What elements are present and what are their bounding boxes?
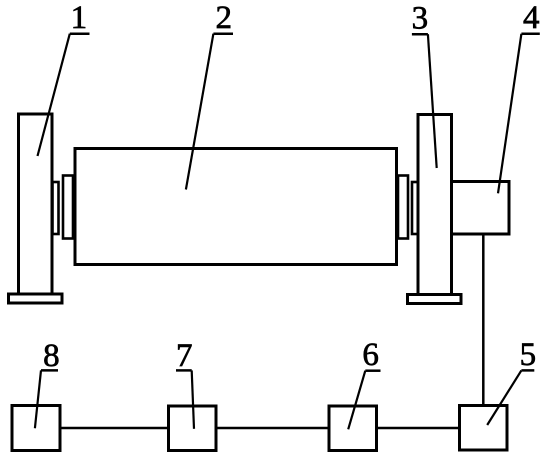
- svg-text:6: 6: [362, 337, 379, 373]
- svg-text:1: 1: [71, 0, 88, 36]
- svg-text:7: 7: [176, 338, 193, 374]
- svg-text:3: 3: [412, 0, 429, 36]
- svg-text:2: 2: [215, 0, 232, 36]
- svg-text:4: 4: [523, 0, 540, 36]
- svg-text:5: 5: [520, 337, 537, 373]
- svg-text:8: 8: [43, 338, 60, 374]
